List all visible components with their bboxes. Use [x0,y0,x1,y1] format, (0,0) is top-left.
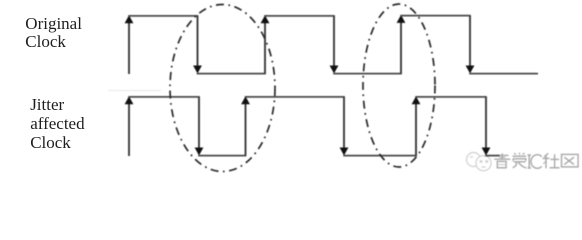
original clock: high segment 2 wire [264,15,335,17]
watermark glyph 爱 [513,153,527,168]
watermark glyph 社 [543,153,560,168]
label: Original Clock [25,15,82,52]
original clock: falling edge 1 arrowhead [193,66,202,74]
original clock: low segment 1 wire [197,73,266,75]
original clock: falling edge 1 wire [197,16,199,72]
jitter clock: rising edge 2 wire [245,98,247,156]
watermark glyph C [531,155,542,169]
original clock: low segment 3 wire [469,73,538,75]
jitter clock: rising edge 1 wire [128,98,130,156]
jitter clock: falling edge 3 arrowhead [482,148,491,156]
jitter clock: rising edge 3 arrowhead [412,96,421,104]
original clock: rising edge 3 arrowhead [397,15,406,23]
faint ghost line left of waveforms [108,90,161,92]
jitter clock: falling edge 1 wire [198,97,200,154]
jitter clock: falling edge 3 wire [485,97,487,154]
original clock: high segment 1 wire [128,15,198,17]
original clock: rising edge 1 arrowhead [125,15,134,23]
jitter clock: falling edge 2 arrowhead [340,148,349,156]
jitter clock: low segment 2 wire [343,155,417,157]
original clock: rising edge 2 wire [264,17,266,74]
jitter clock: low segment 1 wire [198,155,246,157]
watermark glyph I [528,155,532,168]
jitter clock: low segment 3 wire [485,155,499,157]
label: Jitter affected Clock [30,96,84,152]
watermark text: 吾爱IC社区 (approximated strokes) [494,153,578,169]
jitter clock: rising edge 3 wire [415,98,417,156]
jitter highlight ellipse 2 (dash-dot) [363,4,435,167]
original clock: falling edge 2 arrowhead [330,66,339,74]
jitter clock: rising edge 2 arrowhead [241,96,250,104]
jitter clock: falling edge 1 arrowhead [195,148,204,156]
jitter highlight ellipse 1 (dash-dot) [170,5,275,172]
original clock: rising edge 2 arrowhead [261,15,270,23]
watermark glyph 区 [562,154,579,167]
watermark logo circles [467,153,492,171]
original clock: falling edge 3 wire [469,16,471,72]
jitter clock: falling edge 2 wire [343,97,345,154]
original clock: rising edge 3 wire [400,17,402,74]
jitter clock: rising edge 1 arrowhead [125,96,134,104]
jitter clock: high segment 1 wire [128,96,200,98]
original clock: falling edge 3 arrowhead [466,66,475,74]
watermark glyph 吾 [494,153,510,167]
original clock: low segment 2 wire [333,73,402,75]
original clock: high segment 3 wire [400,15,471,17]
jitter clock: high segment 3 wire [415,96,487,98]
jitter clock: high segment 2 wire [245,96,345,98]
original clock: rising edge 1 wire [128,17,130,74]
original clock: falling edge 2 wire [333,16,335,72]
